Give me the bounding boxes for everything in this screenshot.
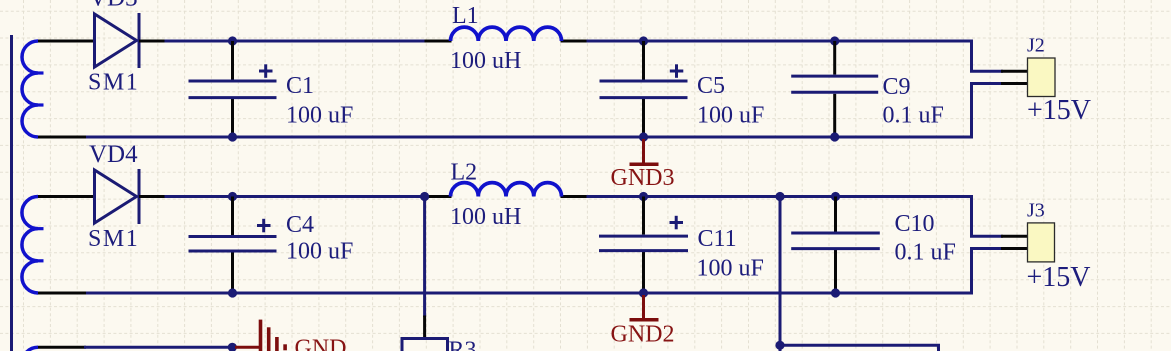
svg-text:+15V: +15V [1027, 262, 1091, 293]
wire: bottom rail to J3 pin 2 [972, 249, 1004, 295]
wire: W3 net to GND [84, 346, 232, 349]
wire: top rail circuit 1 (right of L1) [561, 40, 973, 43]
svg-text:R3: R3 [449, 338, 477, 351]
capacitor C11 plates [599, 235, 688, 238]
junction: GND tap [228, 343, 237, 351]
wire: VD4 cathode pin [139, 195, 166, 198]
svg-text:J3: J3 [1027, 200, 1045, 222]
diode VD3 [95, 14, 137, 67]
wire: VD3 cathode pin [139, 40, 166, 43]
capacitor C11 pins [642, 197, 645, 235]
capacitor C4 plates [189, 235, 277, 238]
R3 pin [423, 316, 426, 340]
junction: R3 branch [420, 192, 429, 201]
resistor R3 (clipped) [402, 339, 448, 351]
wire: bottom rail circuit 2 [84, 292, 973, 295]
svg-text:100 uF: 100 uF [286, 102, 353, 128]
svg-text:GND: GND [295, 336, 347, 351]
transformer winding W2 [22, 197, 38, 293]
junction: C5 bottom [639, 132, 648, 141]
junction: C11 top [639, 192, 648, 201]
svg-text:C5: C5 [697, 73, 725, 99]
capacitor C1 pins [231, 41, 234, 80]
J2 pin 1 [1001, 70, 1028, 73]
svg-text:SM1: SM1 [88, 69, 139, 95]
power port GND3 stem [642, 139, 645, 164]
inductor L2 [451, 183, 562, 197]
wire: bottom net to right [780, 345, 939, 351]
junction: C1 top [228, 36, 237, 45]
connector J3 body [1028, 223, 1055, 262]
power port GND2 bar [630, 318, 659, 322]
svg-text:100 uH: 100 uH [450, 204, 521, 230]
capacitor C1 plates [189, 80, 277, 83]
J3 pin 2 [1001, 247, 1028, 250]
capacitor C10 plates [791, 232, 880, 235]
junction: C10 bottom [831, 288, 840, 297]
svg-text:100 uF: 100 uF [697, 256, 764, 282]
svg-text:C1: C1 [286, 73, 314, 99]
C11 polarity plus [670, 221, 684, 224]
inductor L1 pins [425, 40, 452, 43]
transformer core line [10, 35, 13, 351]
junction: top of x=780 net [775, 192, 784, 201]
transformer winding W1 [22, 41, 38, 137]
wire: bottom rail to J2 pin 2 [972, 84, 1004, 139]
wire: branch down to R3 [423, 197, 426, 318]
wire: winding W2 lower pin [38, 292, 86, 295]
svg-text:J2: J2 [1027, 35, 1045, 57]
power port GND2 stem [642, 295, 645, 320]
earth ground bar 3 [275, 337, 279, 351]
wire: top rail circuit 2 (right of L2) [561, 195, 973, 198]
earth ground bar 4 [283, 344, 287, 350]
svg-text:C10: C10 [895, 211, 935, 237]
svg-text:100 uF: 100 uF [697, 102, 764, 128]
J2 pin 2 [1001, 82, 1028, 85]
C4 polarity plus [257, 224, 271, 227]
wire: winding W2 pin to VD4 anode [38, 195, 94, 198]
junction: C5 top [639, 36, 648, 45]
connector J2 body [1028, 58, 1056, 97]
wire: top rail circuit 2 (left of L2) [165, 195, 452, 198]
wire: winding W1 pin to VD3 anode [38, 40, 94, 43]
svg-text:VD3: VD3 [89, 0, 138, 11]
capacitor C9 pins [833, 41, 836, 75]
svg-text:GND2: GND2 [611, 321, 675, 347]
junction: C1 bottom [228, 132, 237, 141]
svg-text:+15V: +15V [1027, 95, 1091, 126]
junction: C11 bottom [639, 288, 648, 297]
capacitor C10 pins [834, 197, 837, 232]
power port GND3 bar [630, 163, 659, 167]
wire: top rail circuit 1 (left of L1) [165, 40, 452, 43]
svg-text:C4: C4 [286, 212, 314, 238]
diode VD4 [95, 170, 137, 223]
J3 pin 1 [1001, 235, 1028, 238]
svg-text:0.1 uF: 0.1 uF [895, 240, 956, 266]
svg-text:L1: L1 [452, 3, 479, 29]
wire: winding W3 pin [38, 346, 86, 349]
C1 polarity plus [259, 70, 273, 73]
junction: C9 bottom [830, 132, 839, 141]
svg-text:SM1: SM1 [88, 226, 139, 252]
wire: top rail to J3 pin 1 [972, 195, 1004, 236]
svg-text:GND3: GND3 [611, 165, 675, 191]
transformer winding W3 (partial) [22, 347, 38, 351]
earth ground bar 1 [259, 320, 263, 351]
wire: winding W1 lower pin [38, 136, 86, 139]
svg-text:100 uF: 100 uF [286, 238, 353, 264]
capacitor C5 pins [642, 41, 645, 80]
svg-text:L2: L2 [451, 160, 478, 186]
C5 polarity plus [670, 70, 684, 73]
inductor L1 [451, 27, 562, 41]
junction: C10 top [831, 192, 840, 201]
svg-text:C11: C11 [698, 226, 737, 252]
wire: bottom rail circuit 1 [84, 136, 973, 139]
svg-text:VD4: VD4 [89, 141, 138, 168]
capacitor C4 pins [231, 197, 234, 236]
earth ground bar 2 [267, 327, 271, 351]
earth ground GND stem [235, 346, 259, 349]
junction: C9 top [830, 36, 839, 45]
svg-text:100 uH: 100 uH [450, 48, 521, 74]
junction: C4 bottom [228, 288, 237, 297]
junction: C4 top [228, 192, 237, 201]
svg-text:C9: C9 [883, 74, 911, 100]
inductor L2 pins [429, 195, 452, 198]
capacitor C5 plates [600, 80, 688, 83]
wire: vertical net at x=780 [779, 197, 782, 351]
wire: top rail to J2 pin 1 [972, 40, 1004, 72]
capacitor C9 plates [791, 75, 878, 78]
junction: bottom net at x=780 [775, 341, 784, 350]
svg-text:0.1 uF: 0.1 uF [883, 102, 944, 128]
